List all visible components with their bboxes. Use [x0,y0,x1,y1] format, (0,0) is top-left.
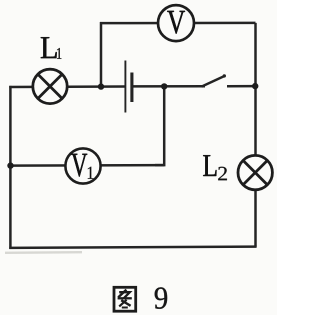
wire: left vertical from lamp L1 corner through node D to bottom-left corner [9,86,12,249]
caption figure number 9 [155,287,167,308]
scan shadow under bottom-left wire [5,251,82,254]
voltmeter V circle [158,5,194,41]
switch S blade tip dot [223,74,226,77]
lamp L1 circle with cross [33,69,67,103]
wire: switch S right contact to node C [227,85,256,88]
voltmeter V letter [167,11,185,34]
junction node D (left wire / V1 branch) [7,162,13,168]
junction node B (battery right) [161,83,167,89]
battery B long positive plate [124,61,126,113]
voltmeter V1 circle [65,148,100,183]
label L2 subscript 2 [218,167,227,180]
wire: riser from node B down to voltmeter V1 branch [155,85,164,165]
lamp L2 circle with cross [238,155,272,189]
label L1 letter L [41,37,57,58]
wire: voltmeter V1 branch horizontal from node D to riser [9,164,164,167]
wire: main line from battery negative plate to switch S left contact [133,85,205,88]
voltmeter V1 subscript 1 [88,167,94,179]
switch S blade [202,76,225,87]
label L2 letter L [203,155,216,176]
wire: right vertical from top-right corner through switch node down to bottom-right corner [254,23,257,247]
junction node C (switch right) [252,83,258,89]
wire: top branch from node A riser to top-right corner [100,22,256,25]
wire: bottom horizontal return wire [9,247,256,248]
voltmeter V1 letter V [71,154,87,177]
wire: riser from node A up to top branch [100,22,103,88]
battery B short negative plate [130,73,133,103]
junction node A (battery left) [98,83,104,89]
label L1 subscript 1 [57,48,61,59]
caption character tu (figure) drawn as strokes [114,287,136,311]
wire: main line from corner through lamp L1 to battery positive plate [9,85,125,88]
